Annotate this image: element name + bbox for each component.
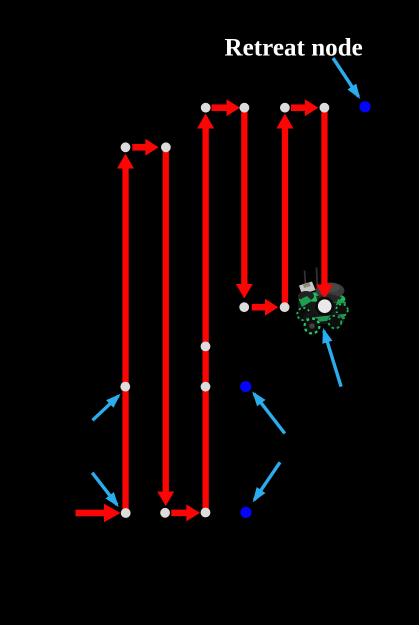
node 14 [201, 508, 211, 518]
red arrow H2 node at y=147 to next [132, 139, 158, 156]
node 4 [240, 103, 250, 113]
wire: red vertical line A (x=125.5 from bottom node up to node at y=147) [117, 154, 134, 510]
red arrow H1 bottom row node13 to node14 [171, 504, 200, 521]
node 1 [121, 142, 131, 152]
robot image (green rover) [296, 268, 349, 335]
node 11 [120, 382, 130, 392]
wire: red vertical line D (x=244.3 from top node down, arrow down above node y=307) [236, 110, 253, 299]
wire: red vertical line F (x=324.4 from top node down to robot node, arrow down) [316, 110, 333, 299]
retreat node B2 (middle) [240, 381, 251, 392]
red arrow H4 top row node5 to node6 [291, 99, 318, 116]
node 8 [280, 302, 290, 312]
node 9 [201, 342, 211, 352]
cyan arrow C4 to retreat node B2 [254, 394, 285, 434]
node 5 [280, 103, 290, 113]
node 6 [320, 103, 330, 113]
svg-text:Retreat node: Retreat node [225, 35, 363, 62]
cyan arrow C5 to retreat node B3 [254, 462, 280, 500]
node 12 [121, 508, 131, 518]
wire: red vertical line E (x=284.9 from node y=307 up to top node, arrow up) [276, 114, 293, 304]
red entry arrow H0 into bottom-left node [76, 504, 121, 522]
wire: red vertical line C (x=205.6 from bottom node up to top node, arrow up) [197, 114, 214, 510]
cyan arrow C3 to node 12 [92, 473, 117, 505]
retreat node B1 (top right) [360, 101, 371, 112]
node 3 [201, 103, 211, 113]
robot current node (white with black ring) [317, 298, 333, 314]
wire: red vertical line B (x=165.7 from node y=147 down to bottom node, arrow down) [157, 150, 174, 506]
retreat node B3 (bottom) [240, 507, 251, 518]
red arrow H3 top row node3 to node4 [212, 99, 241, 116]
cyan arrow C2 to node 11 [93, 396, 119, 421]
cyan arrow C6 to robot [324, 331, 341, 387]
cyan arrow C1 from label to retreat node B1 [333, 58, 359, 97]
node 2 [161, 142, 171, 152]
node 13 [160, 508, 170, 518]
red arrow H5 mid row node7 to node8 [252, 299, 278, 316]
node 7 [239, 302, 249, 312]
node 10 [201, 382, 211, 392]
